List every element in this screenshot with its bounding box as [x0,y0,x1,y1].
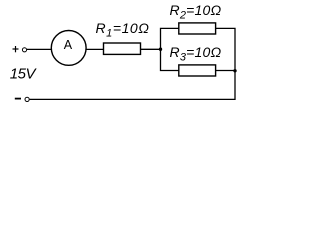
resistor R1 body [104,43,141,54]
resistor R2 body [179,23,216,34]
ammeter A1 circle [51,31,86,66]
node B junction dot [233,69,236,72]
svg-text:R1=10Ω: R1=10Ω [96,20,150,40]
plus sign (+ terminal of source) [13,46,19,52]
+ terminal circle [22,48,26,52]
minus sign (- terminal of source) [15,98,21,100]
- terminal circle [25,97,29,101]
wire R1 to node A [141,48,161,50]
svg-text:R3=10Ω: R3=10Ω [170,44,222,64]
wire R2 to right vertical and down to bottom rail [30,28,235,99]
wire ammeter to R1 [86,48,103,50]
node A junction dot [159,48,162,51]
wire + terminal to ammeter [27,48,51,50]
svg-text:15V: 15V [10,66,38,83]
svg-text:R2=10Ω: R2=10Ω [170,2,222,22]
resistor R3 body [179,65,216,76]
wire left branch vertical (node A to R2/R3 branches) [161,28,179,70]
svg-text:A: A [64,38,73,52]
wire R3 to node B [216,70,235,72]
